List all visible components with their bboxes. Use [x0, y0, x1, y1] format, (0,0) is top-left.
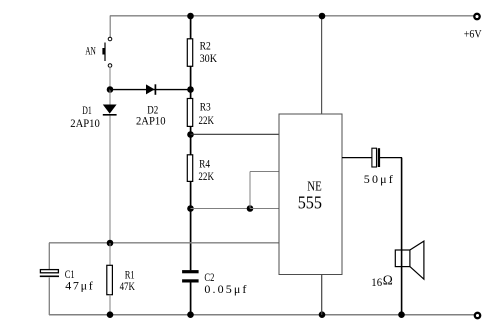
- svg-text:D1: D1: [82, 103, 92, 117]
- wire reset rail: [49, 242, 279, 244]
- resistor R1: [107, 265, 113, 294]
- junction top rail at R2: [187, 13, 194, 20]
- terminal +6V: [474, 14, 479, 19]
- wire R1 bottom lead: [109, 295, 111, 316]
- svg-text:2AP10: 2AP10: [70, 116, 100, 130]
- junction riser node: [247, 205, 254, 212]
- wire top rail to R2: [190, 16, 192, 39]
- svg-text:22K: 22K: [199, 113, 215, 127]
- capacitor C1: [40, 270, 59, 278]
- svg-text:555: 555: [298, 192, 322, 212]
- wire R3 to R4: [190, 126, 192, 155]
- switch AN: [102, 37, 111, 67]
- wire ground rail: [49, 314, 474, 316]
- junction ground rail at IC: [319, 311, 326, 318]
- junction D2 cathode at R2/R3 node: [187, 86, 194, 93]
- diode D1: [103, 90, 117, 115]
- wire top supply rail: [110, 15, 474, 17]
- wire supply to IC top pin: [321, 16, 323, 114]
- svg-text:R3: R3: [200, 99, 211, 113]
- wire riser up: [249, 172, 251, 209]
- wire switch to junction: [109, 67, 111, 89]
- svg-text:16: 16: [371, 275, 382, 289]
- terminal ground: [475, 313, 480, 318]
- wire speaker column: [401, 158, 403, 315]
- wire C1 to ground rail: [48, 278, 50, 316]
- wire R1 top lead: [109, 243, 111, 266]
- op-amp U1 NE555 box: [279, 114, 342, 275]
- wire trigger node to IC pin: [250, 208, 279, 210]
- wire IC output to C3: [342, 157, 372, 159]
- svg-text:30K: 30K: [200, 51, 218, 65]
- svg-text:47K: 47K: [120, 279, 136, 293]
- junction R3/R4 node: [187, 131, 194, 138]
- wire left loop down to C1: [48, 243, 50, 270]
- diode D2: [110, 84, 191, 95]
- wire top-left corner down to switch: [109, 16, 111, 38]
- resistor R2: [187, 39, 192, 67]
- wire R2 to R3: [190, 66, 192, 99]
- wire riser to IC pin: [250, 171, 279, 173]
- junction R4/C2 trigger node: [187, 205, 194, 212]
- speaker LS1: [395, 241, 424, 279]
- resistor R3: [187, 99, 192, 127]
- junction supply rail at IC: [319, 13, 326, 20]
- svg-text:2AP10: 2AP10: [136, 113, 166, 127]
- wire C3 to speaker: [380, 157, 402, 159]
- svg-text:Ω: Ω: [383, 272, 393, 287]
- capacitor C2: [182, 270, 199, 282]
- resistor R4: [187, 155, 192, 182]
- junction at D1/D2 node: [107, 86, 114, 93]
- capacitor C3 50uf: [372, 148, 380, 167]
- svg-text:22K: 22K: [198, 169, 214, 183]
- junction reset rail at R1: [107, 240, 114, 247]
- wire trigger node to riser: [191, 208, 251, 210]
- wire R4 down through trigger node to C2: [190, 181, 192, 270]
- wire C2 to ground rail: [190, 283, 192, 316]
- junction ground rail at speaker: [398, 311, 405, 318]
- svg-text:AN: AN: [85, 44, 96, 58]
- svg-text:+6V: +6V: [464, 27, 482, 41]
- wire D1 cathode down to lower rail: [109, 116, 111, 244]
- junction ground rail at C2: [187, 311, 194, 318]
- wire R3/R4 node to IC pin: [191, 133, 280, 135]
- junction ground rail at R1: [107, 311, 114, 318]
- wire IC bottom pin to ground rail: [321, 275, 323, 316]
